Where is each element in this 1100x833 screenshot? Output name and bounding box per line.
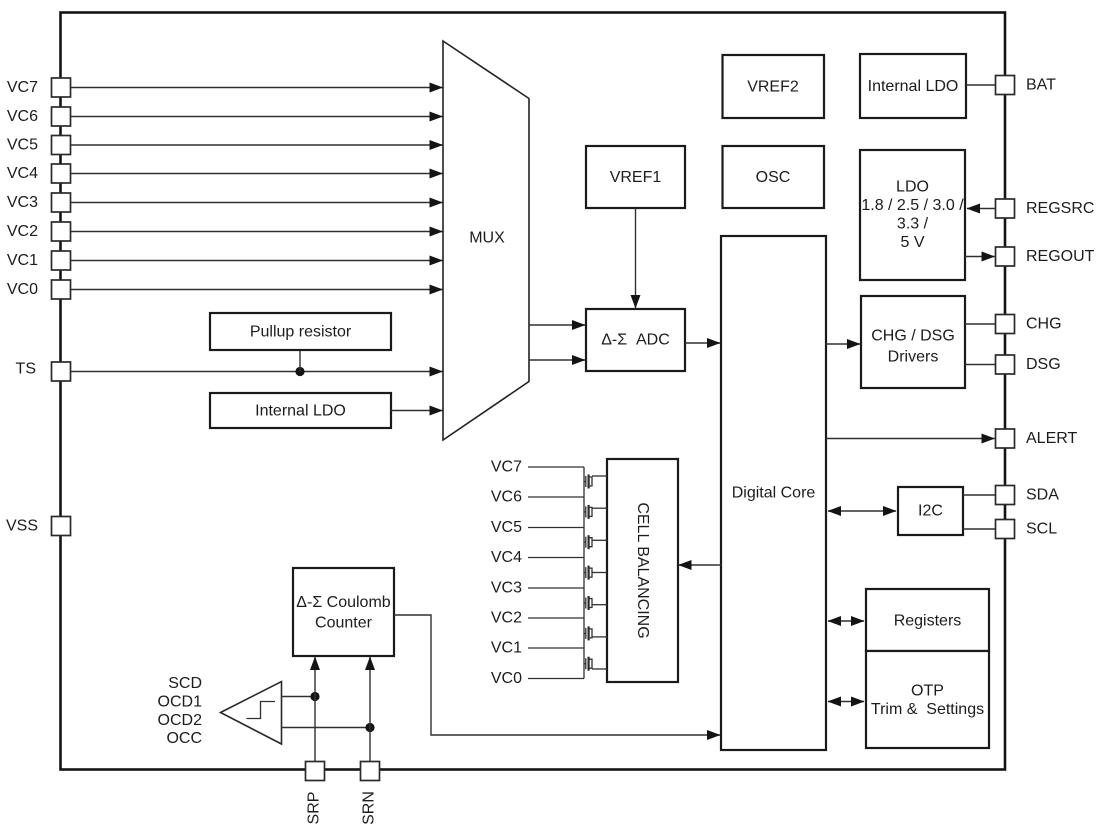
node SCD/OCD/OCC labels [158,675,203,747]
pin SRP [306,762,325,825]
svg-text:VC6: VC6 [491,489,522,506]
svg-text:VC2: VC2 [491,610,522,627]
pin VC2 [7,222,71,241]
wire coulomb counter to digital core [394,615,720,735]
wire internal LDO to BAT [966,84,996,86]
svg-text:CELL BALANCING: CELL BALANCING [634,502,651,638]
svg-text:SDA: SDA [1026,487,1059,504]
svg-text:VC3: VC3 [7,194,38,211]
pin REGOUT [996,247,1095,266]
junction TS / pullup [295,367,304,376]
wire comparator input 2 [282,727,371,729]
svg-text:SRN: SRN [361,791,378,825]
pin VSS [6,517,71,536]
wire VC6 to MUX [71,116,443,118]
wire VREF1 to ADC [635,208,637,308]
svg-text:Pullup resistor: Pullup resistor [250,324,352,341]
wire VC4 to MUX [71,173,443,175]
svg-text:VC7: VC7 [7,79,38,96]
wire drivers to DSG [965,364,996,366]
svg-text:OCD2: OCD2 [158,712,203,729]
svg-text:DSG: DSG [1026,356,1061,373]
wire VC2 to MUX [71,231,443,233]
svg-text:Counter: Counter [315,615,373,632]
registers block [866,589,989,651]
junction on SRN wire [365,723,374,732]
digital core block [721,236,826,750]
svg-text:Δ-Σ Coulomb: Δ-Σ Coulomb [296,594,390,611]
wire comparator input 1 [282,696,316,698]
wire drivers to CHG [965,323,996,325]
wire REGSRC to LDO [967,208,996,210]
CHG / DSG drivers block [861,296,965,388]
node VC6 (cell balance) [491,489,584,506]
wire VC0 to MUX [71,289,443,291]
internal LDO block (top) [860,54,966,118]
svg-text:VC6: VC6 [7,108,38,125]
svg-text:SRP: SRP [306,792,323,825]
svg-text:OCD1: OCD1 [158,694,203,711]
cell balancing block [607,459,678,682]
node VC3 (cell balance) [491,580,584,597]
svg-text:VC0: VC0 [491,670,522,687]
pin DSG [996,355,1061,374]
pin VC4 [7,164,71,183]
wire balance trunk [583,467,585,679]
VREF1 [586,146,685,208]
VREF2 [723,55,825,118]
svg-text:5 V: 5 V [900,234,924,251]
wire digital core to cell balancing [679,564,722,566]
wire VC7 to MUX [71,87,443,89]
transistor QCB4 [584,566,607,580]
I2C block [898,487,963,535]
pin VC3 [7,193,71,212]
svg-text:VC3: VC3 [491,580,522,597]
svg-text:SCD: SCD [168,675,202,692]
pin BAT [996,76,1057,95]
svg-text:VC2: VC2 [7,223,38,240]
svg-text:VREF2: VREF2 [747,79,799,96]
wire internal LDO to MUX [391,410,443,412]
svg-text:VC1: VC1 [491,640,522,657]
svg-text:3.3 /: 3.3 / [897,216,929,233]
svg-text:I2C: I2C [918,503,943,520]
svg-text:VC5: VC5 [7,137,38,154]
node VC5 (cell balance) [491,519,584,536]
svg-text:Internal LDO: Internal LDO [255,403,346,420]
pin VC0 [7,280,71,299]
IC outer boundary [61,13,1006,770]
wire VC3 to MUX [71,202,443,204]
svg-text:Digital Core: Digital Core [732,485,816,502]
wire SRN to coulomb counter [369,657,371,762]
svg-text:ALERT: ALERT [1026,430,1078,447]
svg-text:CHG: CHG [1026,316,1062,333]
pin TS [16,361,71,382]
svg-text:REGOUT: REGOUT [1026,248,1095,265]
wire digital core to drivers [826,343,860,345]
pin VC5 [7,136,71,155]
wire pullup to TS node [299,350,301,372]
comparator (protection) [221,682,282,745]
OSC [723,146,825,208]
svg-text:VC1: VC1 [7,252,38,269]
svg-text:Δ-Σ ADC: Δ-Σ ADC [601,332,670,349]
transistor QCB3 [584,535,607,549]
svg-text:VC4: VC4 [7,165,38,182]
wire digital core to OTP (bidirectional) [828,701,864,703]
svg-text:LDO: LDO [896,179,929,196]
node VC2 (cell balance) [491,610,584,627]
svg-text:OSC: OSC [756,169,791,186]
pin VC7 [7,78,71,97]
node VC0 (cell balance) [491,670,584,687]
node VC7 (cell balance) [491,459,584,476]
junction on SRP wire [310,692,319,701]
svg-text:1.8 / 2.5 / 3.0 /: 1.8 / 2.5 / 3.0 / [861,197,964,214]
coulomb counter block [293,568,394,656]
svg-text:OCC: OCC [166,730,202,747]
svg-text:REGSRC: REGSRC [1026,200,1094,217]
svg-text:VC7: VC7 [491,459,522,476]
OTP block [866,651,989,748]
pin SRN [361,762,380,825]
delta-sigma ADC block [586,309,685,371]
svg-text:VSS: VSS [6,518,38,535]
svg-text:SCL: SCL [1026,521,1057,538]
svg-text:Trim & Settings: Trim & Settings [871,701,984,718]
svg-text:VC0: VC0 [7,281,38,298]
transistor QCB7 [584,657,607,671]
transistor QCB1 [584,475,607,489]
pin VC6 [7,107,71,126]
svg-text:VC5: VC5 [491,519,522,536]
wire I2C to SCL [963,528,996,530]
pin ALERT [996,429,1078,448]
transistor QCB2 [584,505,607,519]
pin REGSRC [996,199,1095,218]
wire digital core to I2C (bidirectional) [828,510,896,512]
pin CHG [996,315,1062,334]
svg-text:MUX: MUX [469,230,505,247]
svg-text:CHG / DSG: CHG / DSG [871,328,955,345]
svg-text:OTP: OTP [911,683,944,700]
internal LDO block (left) [210,393,391,428]
wire SRP to coulomb counter [314,657,316,762]
svg-text:BAT: BAT [1026,77,1056,94]
wire MUX to ADC (1) [529,324,585,326]
transistor QCB5 [584,596,607,610]
wire VC5 to MUX [71,144,443,146]
LDO block [860,150,965,280]
wire digital core to ALERT [826,438,995,440]
wire digital core to registers (bidirectional) [828,620,864,622]
pullup resistor block [210,313,391,350]
svg-text:Drivers: Drivers [888,349,939,366]
svg-text:VC4: VC4 [491,549,522,566]
wire VC1 to MUX [71,260,443,262]
wire I2C to SDA [963,494,996,496]
svg-text:VREF1: VREF1 [610,169,662,186]
wire LDO to REGOUT [965,256,995,258]
svg-text:Registers: Registers [894,613,962,630]
pin SCL [996,520,1058,539]
node VC1 (cell balance) [491,640,584,657]
wire TS to MUX [71,371,443,373]
wire ADC to digital core [685,342,720,344]
transistor QCB6 [584,626,607,640]
svg-text:Internal LDO: Internal LDO [868,78,959,95]
svg-text:TS: TS [16,361,36,378]
wire MUX to ADC (2) [529,359,585,361]
pin SDA [996,486,1060,505]
pin VC1 [7,251,71,270]
MUX [443,41,529,440]
node VC4 (cell balance) [491,549,584,566]
